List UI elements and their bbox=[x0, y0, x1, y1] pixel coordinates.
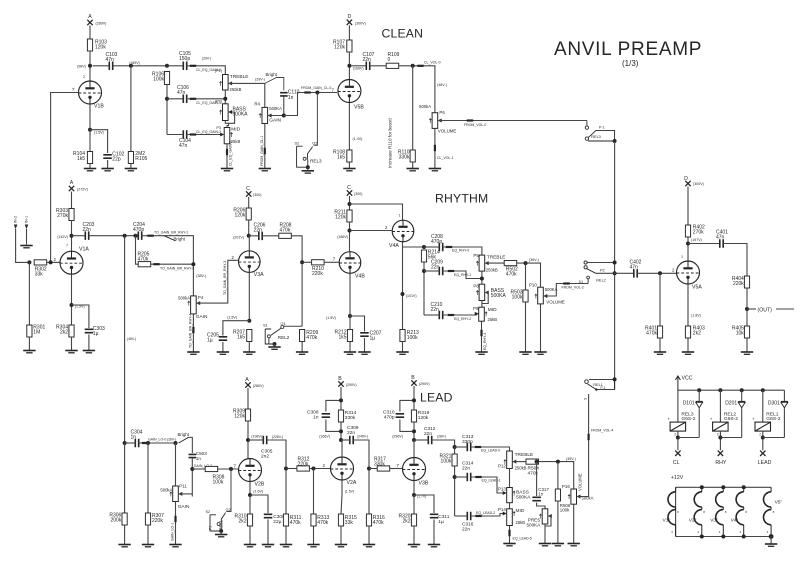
ground C207 bbox=[358, 352, 370, 354]
junction rail C314 bbox=[453, 475, 457, 479]
wire cathode to C102 bbox=[90, 130, 108, 153]
label R506 100k bbox=[560, 503, 571, 513]
svg-text:500KA: 500KA bbox=[527, 522, 542, 527]
wire mid to ground lead bbox=[509, 526, 511, 544]
ground REL1 bbox=[215, 535, 227, 537]
svg-text:250kB: 250kB bbox=[230, 87, 242, 92]
svg-text:Bright: Bright bbox=[174, 236, 186, 241]
svg-text:(1.5V): (1.5V) bbox=[94, 130, 104, 134]
label R311 470k bbox=[290, 515, 302, 526]
heater V5" bbox=[764, 487, 772, 536]
junction combo top V3B bbox=[412, 398, 416, 402]
wire rail to R317 bbox=[369, 468, 377, 470]
svg-text:330p: 330p bbox=[462, 439, 473, 445]
svg-text:P3: P3 bbox=[216, 126, 221, 130]
svg-text:ANVIL PREAMP: ANVIL PREAMP bbox=[554, 39, 702, 60]
svg-text:(290V): (290V) bbox=[419, 382, 430, 386]
svg-text:R105: R105 bbox=[135, 156, 147, 162]
potentiometer P3 MID bbox=[220, 128, 233, 144]
bright switch blade LEAD bbox=[179, 437, 193, 453]
wire V4B cathode bbox=[349, 273, 351, 316]
svg-text:25kB: 25kB bbox=[516, 520, 526, 525]
svg-text:V4B: V4B bbox=[355, 274, 365, 280]
svg-text:GAIN_LO-1: GAIN_LO-1 bbox=[171, 523, 175, 541]
ground R213 bbox=[396, 352, 408, 354]
svg-text:P9: P9 bbox=[473, 306, 479, 311]
svg-text:500KA: 500KA bbox=[269, 106, 282, 111]
ground IN-1 bbox=[20, 246, 32, 248]
wire D101 to coil bottom bbox=[698, 408, 700, 437]
svg-text:(249V-): (249V-) bbox=[357, 435, 368, 439]
wire C402 to V5A grid bbox=[637, 272, 676, 274]
svg-text:(P2): (P2) bbox=[215, 99, 223, 103]
svg-text:120k: 120k bbox=[95, 45, 106, 51]
relay contact REL3 (clean mute) bbox=[297, 93, 318, 168]
wire gain wiper bbox=[268, 115, 284, 117]
svg-text:V4": V4" bbox=[731, 518, 739, 524]
junction R313 tap bbox=[312, 467, 316, 471]
wire rail to C105 bbox=[167, 65, 183, 67]
net tick FROM_VOL-0 bbox=[467, 119, 473, 121]
label R317 330k bbox=[374, 457, 386, 468]
wire cathode to tone stack bbox=[403, 246, 425, 248]
wire C205 to ground bbox=[222, 342, 224, 352]
svg-text:22n: 22n bbox=[462, 466, 470, 472]
ground REL3 bbox=[302, 171, 314, 173]
capacitor C313 bbox=[467, 443, 470, 452]
svg-text:G6S-2: G6S-2 bbox=[681, 416, 695, 422]
svg-text:D201: D201 bbox=[725, 401, 737, 407]
svg-text:120k: 120k bbox=[234, 213, 245, 219]
svg-text:TREBLE: TREBLE bbox=[230, 74, 249, 80]
resistor R211 bbox=[347, 210, 352, 222]
svg-text:(166V): (166V) bbox=[319, 434, 330, 438]
junction rail D201 bbox=[740, 388, 744, 392]
ground CLEAN tone stack bbox=[221, 169, 233, 171]
net tick TO_GAIN_BR_RHY-0 bbox=[153, 263, 159, 265]
junction R205 tap bbox=[134, 234, 138, 238]
svg-text:120k: 120k bbox=[234, 414, 245, 420]
label C305 2n2 bbox=[261, 449, 273, 460]
wire node A to R303 bbox=[71, 192, 73, 209]
label C309 22n bbox=[347, 425, 359, 436]
svg-text:D: D bbox=[348, 14, 352, 20]
resistor R314 bbox=[338, 410, 343, 422]
terminal X CL bbox=[675, 451, 680, 456]
wire plate to C103 bbox=[93, 65, 110, 67]
label R103 120k bbox=[95, 40, 107, 51]
resistor R205 bbox=[138, 262, 151, 267]
svg-text:500kA: 500kA bbox=[419, 104, 431, 109]
junction C317 tap bbox=[535, 460, 539, 464]
wire R315 to ground bbox=[340, 526, 342, 544]
wire D201 to coil bottom bbox=[741, 408, 743, 437]
svg-text:(28V-): (28V-) bbox=[167, 438, 176, 442]
node B supply (V2A) bbox=[338, 381, 343, 386]
wire VCC rail bbox=[678, 389, 785, 391]
resistor R319 bbox=[411, 410, 416, 422]
net tick FROM_VOL-4 bbox=[588, 434, 590, 440]
junction V3A plate node bbox=[247, 234, 251, 238]
wire C316 to mid wiper lead bbox=[471, 514, 504, 517]
junction C110 wiper node bbox=[282, 114, 286, 118]
net tick CL_VOL-0 bbox=[417, 65, 423, 67]
junction V5B plate node bbox=[347, 64, 351, 68]
node A supply (V1B) bbox=[87, 20, 92, 25]
wire treble wiper to R504 bbox=[512, 461, 526, 463]
triode V3A bbox=[239, 251, 261, 273]
label C210 22n bbox=[431, 302, 443, 313]
wire heater to ground bbox=[770, 537, 772, 544]
wire mid to ground bbox=[226, 144, 228, 169]
ground R105 bbox=[125, 169, 137, 171]
svg-text:O2: O2 bbox=[226, 508, 231, 512]
wire C106 to treble-bass junction bbox=[187, 98, 226, 100]
svg-text:Increase R110 for boost!: Increase R110 for boost! bbox=[388, 118, 393, 168]
ground R320 bbox=[408, 545, 420, 547]
svg-text:22p: 22p bbox=[112, 157, 121, 163]
capacitor C401 bbox=[720, 239, 723, 248]
svg-text:2k2: 2k2 bbox=[693, 331, 701, 337]
label REL1 G6S-2 bbox=[766, 411, 780, 422]
wire R208 to rail bbox=[291, 236, 302, 326]
wire C206 to R208 bbox=[262, 235, 279, 237]
wire coil to diode D201 bbox=[720, 437, 741, 439]
wire V3B cathode bbox=[413, 481, 415, 496]
potentiometer P11 GAIN bbox=[170, 486, 183, 502]
net tick EQ_LEAD-0 bbox=[475, 446, 481, 448]
resistor R403 bbox=[685, 326, 690, 338]
svg-text:FROM_GAIN_CL-0: FROM_GAIN_CL-0 bbox=[301, 86, 331, 90]
wire P4 wiper to V3A grid bbox=[196, 260, 238, 303]
svg-text:O1: O1 bbox=[281, 322, 286, 326]
junction R312 tap bbox=[284, 467, 288, 471]
svg-text:EQ_LEAD-2: EQ_LEAD-2 bbox=[476, 511, 495, 515]
resistor R317 bbox=[377, 466, 390, 471]
resistor R315 bbox=[338, 514, 343, 526]
wire heater left bbox=[675, 487, 677, 536]
wire plate to C312 bbox=[414, 439, 428, 441]
wire treble wiper to gain bbox=[228, 83, 265, 107]
net tick EQ_RHY-0 bbox=[446, 246, 452, 248]
svg-text:1n: 1n bbox=[313, 415, 319, 421]
svg-text:V3B: V3B bbox=[419, 481, 429, 487]
svg-text:(98V): (98V) bbox=[77, 64, 86, 68]
wire V2A plate bbox=[341, 440, 343, 457]
junction tone stack top bbox=[165, 64, 169, 68]
node C supply (V4) bbox=[347, 190, 352, 195]
label R108 1k5 bbox=[333, 150, 345, 161]
svg-text:470p: 470p bbox=[133, 227, 144, 233]
label R316 470k bbox=[373, 515, 385, 526]
wire lead stack rail bbox=[454, 466, 456, 516]
ground R110 bbox=[407, 169, 419, 171]
svg-text:B: B bbox=[338, 376, 342, 382]
svg-text:LEAD: LEAD bbox=[420, 391, 453, 405]
wire plate to C305 bbox=[248, 439, 263, 441]
label R210 220k bbox=[312, 266, 324, 277]
label R207 1k5 bbox=[233, 330, 245, 341]
junction R503 tap bbox=[524, 261, 528, 265]
label R110 330k bbox=[398, 150, 410, 161]
wire treble to bass lead bbox=[509, 469, 511, 488]
svg-text:2k2: 2k2 bbox=[402, 519, 410, 525]
junction bus REL2 top bbox=[613, 261, 617, 265]
junction REL3 tap bbox=[315, 91, 319, 95]
triode V2A bbox=[331, 457, 354, 480]
svg-text:(1/3): (1/3) bbox=[622, 59, 639, 68]
wire V3B plate bbox=[413, 440, 415, 458]
wire R504 to P16 bbox=[538, 462, 573, 489]
wire cathode to R104 bbox=[89, 130, 91, 152]
junction C304 node bbox=[123, 441, 127, 445]
svg-text:V3": V3" bbox=[710, 518, 718, 524]
svg-text:2: 2 bbox=[717, 433, 719, 437]
wire plate to C401 bbox=[688, 243, 720, 245]
svg-text:(29V-): (29V-) bbox=[255, 78, 265, 82]
junction V2B plate node bbox=[246, 438, 250, 442]
junction V3A cathode node bbox=[247, 319, 251, 323]
label R213 100k bbox=[407, 330, 419, 341]
label R502 470k bbox=[506, 266, 518, 277]
resistor R504 bbox=[526, 459, 539, 464]
triode V4A bbox=[392, 220, 414, 242]
wire to R205 bbox=[136, 236, 139, 265]
resistor R313 bbox=[311, 514, 316, 526]
label 2M2 R105 bbox=[135, 151, 147, 162]
svg-text:47n: 47n bbox=[630, 265, 639, 271]
junction input node bbox=[27, 260, 31, 264]
svg-text:MID: MID bbox=[516, 508, 525, 514]
label R405 10k bbox=[732, 326, 744, 337]
svg-text:47n: 47n bbox=[177, 90, 186, 96]
potentiometer PRES bbox=[539, 509, 551, 524]
ground R306 bbox=[118, 545, 130, 547]
label C402 47n bbox=[630, 260, 642, 271]
svg-text:250kB: 250kB bbox=[515, 466, 527, 471]
svg-text:V2A: V2A bbox=[347, 480, 357, 486]
svg-text:(296V): (296V) bbox=[392, 434, 403, 438]
wire node D to R402 bbox=[687, 187, 689, 226]
svg-text:P-1: P-1 bbox=[599, 125, 605, 129]
label R319 120k bbox=[418, 410, 430, 421]
ground R304 bbox=[65, 351, 77, 353]
terminal X LEAD bbox=[760, 451, 765, 456]
svg-text:IN-2: IN-2 bbox=[14, 216, 18, 223]
wire cathode to R310 bbox=[249, 495, 251, 514]
resistor R206 bbox=[246, 208, 251, 220]
label C306 22u bbox=[273, 514, 285, 525]
potentiometer P13 BASS bbox=[503, 488, 515, 503]
capacitor C314 bbox=[467, 473, 470, 482]
wire R503 to ground bbox=[525, 302, 527, 352]
svg-text:100k: 100k bbox=[153, 77, 164, 83]
junction R210 tap bbox=[300, 260, 304, 264]
svg-text:22n: 22n bbox=[83, 227, 92, 233]
wire C311 to ground bbox=[433, 520, 435, 545]
svg-text:(300): (300) bbox=[354, 192, 362, 196]
svg-text:(OUT): (OUT) bbox=[758, 307, 773, 313]
svg-text:P11: P11 bbox=[179, 484, 187, 489]
capacitor C308 (1n) bbox=[322, 414, 331, 417]
svg-text:G6S-2: G6S-2 bbox=[724, 416, 738, 422]
svg-text:V5A: V5A bbox=[692, 285, 702, 291]
junction R317 tap bbox=[367, 467, 371, 471]
svg-text:470k: 470k bbox=[506, 272, 517, 278]
label C209 22n bbox=[431, 260, 443, 271]
potentiometer P5 TREBLE bbox=[476, 255, 489, 271]
junction heater top V3" bbox=[721, 485, 725, 489]
svg-text:P16: P16 bbox=[562, 484, 570, 489]
heater V3" bbox=[716, 487, 724, 536]
svg-text:2k2: 2k2 bbox=[238, 519, 246, 525]
wire REL2 to C402 bbox=[596, 272, 634, 274]
svg-text:220k: 220k bbox=[733, 281, 744, 287]
junction rhythm stack top bbox=[422, 245, 426, 249]
terminal X RHY bbox=[718, 451, 723, 456]
capacitor C316 bbox=[467, 512, 470, 521]
resistor R320 bbox=[411, 514, 416, 526]
svg-text:2n2: 2n2 bbox=[261, 454, 269, 460]
svg-text:RHYTHM: RHYTHM bbox=[435, 192, 488, 206]
wire to C304 bbox=[125, 442, 136, 444]
svg-text:470k: 470k bbox=[290, 520, 301, 526]
svg-text:10k: 10k bbox=[736, 331, 745, 337]
svg-text:P12: P12 bbox=[498, 464, 506, 469]
ground R207 bbox=[243, 352, 255, 354]
wire main bus bbox=[614, 141, 616, 390]
svg-text:RHY: RHY bbox=[715, 460, 726, 466]
wire rail to D101 bbox=[698, 390, 700, 401]
junction R401 tap bbox=[658, 271, 662, 275]
svg-text:25kB: 25kB bbox=[488, 317, 498, 322]
svg-text:120k: 120k bbox=[418, 415, 429, 421]
svg-text:470k: 470k bbox=[373, 520, 384, 526]
label BASS 500KA P13 bbox=[516, 490, 531, 501]
junction R307 tap bbox=[146, 441, 150, 445]
junction REL1 ground node bbox=[219, 529, 223, 533]
ground C311 bbox=[428, 545, 440, 547]
wire R304 to ground bbox=[71, 337, 73, 350]
wire bass wiper jog rhythm bbox=[482, 293, 489, 304]
resistor R309 bbox=[245, 409, 250, 421]
wire R403 to ground bbox=[687, 338, 689, 352]
label C401 47n bbox=[716, 230, 728, 241]
arrow IN-2 bbox=[14, 225, 18, 230]
resistor R303 bbox=[69, 209, 74, 221]
svg-text:EQ_LEAD-0: EQ_LEAD-0 bbox=[481, 449, 500, 453]
heater V4" bbox=[736, 487, 744, 536]
label R209 470k bbox=[306, 330, 318, 341]
svg-text:(1.8V): (1.8V) bbox=[691, 314, 701, 318]
label C317 1n bbox=[538, 487, 549, 497]
wire R212 to ground bbox=[349, 342, 351, 352]
svg-text:250kB: 250kB bbox=[486, 267, 498, 272]
wire C104 to mid wiper bbox=[187, 134, 222, 136]
ground R104 bbox=[84, 169, 96, 171]
svg-text:100k: 100k bbox=[560, 508, 570, 513]
wire R209 to ground bbox=[301, 342, 303, 352]
label R307 220k bbox=[152, 513, 164, 524]
label R205 470k bbox=[138, 252, 150, 263]
wire R213 to ground bbox=[402, 342, 404, 352]
svg-text:1: 1 bbox=[681, 255, 683, 259]
svg-text:500KA: 500KA bbox=[516, 495, 531, 501]
wire LEAD feed rail bbox=[124, 236, 126, 443]
resistor R208 bbox=[279, 233, 292, 238]
svg-text:(226V-): (226V-) bbox=[272, 435, 283, 439]
bright switch blade RHYTHM bbox=[164, 236, 176, 241]
wire REL1 to ground bbox=[220, 531, 222, 534]
junction heater ground bbox=[769, 534, 774, 539]
label C207 1u bbox=[370, 331, 382, 342]
svg-text:V1A: V1A bbox=[79, 246, 89, 252]
net tick CL_EQ_GAIN-1 bbox=[190, 98, 196, 100]
svg-text:1M: 1M bbox=[33, 330, 40, 336]
svg-text:C: C bbox=[246, 186, 250, 192]
label R211 120k bbox=[334, 210, 346, 221]
resistor R503 bbox=[523, 290, 528, 302]
capacitor C207 bbox=[360, 333, 369, 336]
svg-text:1k5: 1k5 bbox=[337, 155, 345, 161]
label C303 1u bbox=[93, 326, 105, 337]
wire to C313 bbox=[455, 446, 468, 448]
wire bright switch blade bbox=[265, 78, 284, 91]
svg-text:120k: 120k bbox=[335, 215, 346, 221]
ground lead stack bbox=[503, 544, 515, 546]
resistor R321 bbox=[452, 454, 457, 466]
label C106 47n bbox=[177, 85, 189, 96]
svg-text:A: A bbox=[88, 14, 92, 20]
wire rail to D301 bbox=[783, 390, 785, 401]
wire cathode to R315 bbox=[341, 495, 342, 514]
junction treble-bass rhythm bbox=[480, 277, 484, 281]
resistor R404 bbox=[744, 276, 749, 288]
ground C205 bbox=[217, 352, 229, 354]
ground rhythm stack bbox=[475, 352, 487, 354]
wire node D to R107 bbox=[348, 25, 350, 40]
svg-text:V1B: V1B bbox=[94, 104, 104, 110]
svg-text:VOLUME: VOLUME bbox=[438, 128, 457, 133]
svg-text:33k: 33k bbox=[35, 272, 44, 278]
resistor R310 bbox=[247, 514, 252, 526]
capacitor C208 bbox=[439, 243, 442, 252]
wire V3A cathode bbox=[248, 272, 250, 320]
svg-text:V4A: V4A bbox=[389, 243, 399, 249]
wire cathode to C207 bbox=[350, 316, 365, 332]
junction LEAD tap bbox=[123, 234, 127, 238]
wire P16 to ground bbox=[573, 504, 575, 543]
wire R105 to ground bbox=[130, 164, 132, 169]
triode V1A bbox=[60, 251, 83, 274]
ground R401 bbox=[654, 352, 666, 354]
wire C207 to ground bbox=[364, 338, 366, 352]
junction output node bbox=[745, 307, 749, 311]
potentiometer P1 TREBLE bbox=[220, 75, 233, 91]
wire coil REL2 down bbox=[719, 431, 721, 451]
label R312 220k bbox=[298, 457, 310, 468]
wire rail to R312 bbox=[286, 468, 297, 470]
label C208 470p bbox=[431, 234, 443, 245]
svg-text:(300): (300) bbox=[253, 193, 261, 197]
svg-text:500KA: 500KA bbox=[491, 293, 507, 299]
ground C306b bbox=[262, 545, 274, 547]
capacitor C206 bbox=[259, 232, 262, 241]
wire bass to mid rhythm bbox=[481, 301, 483, 308]
label C204 470p bbox=[133, 222, 145, 233]
svg-text:22n: 22n bbox=[254, 228, 263, 234]
svg-text:GAIN: GAIN bbox=[269, 118, 281, 124]
